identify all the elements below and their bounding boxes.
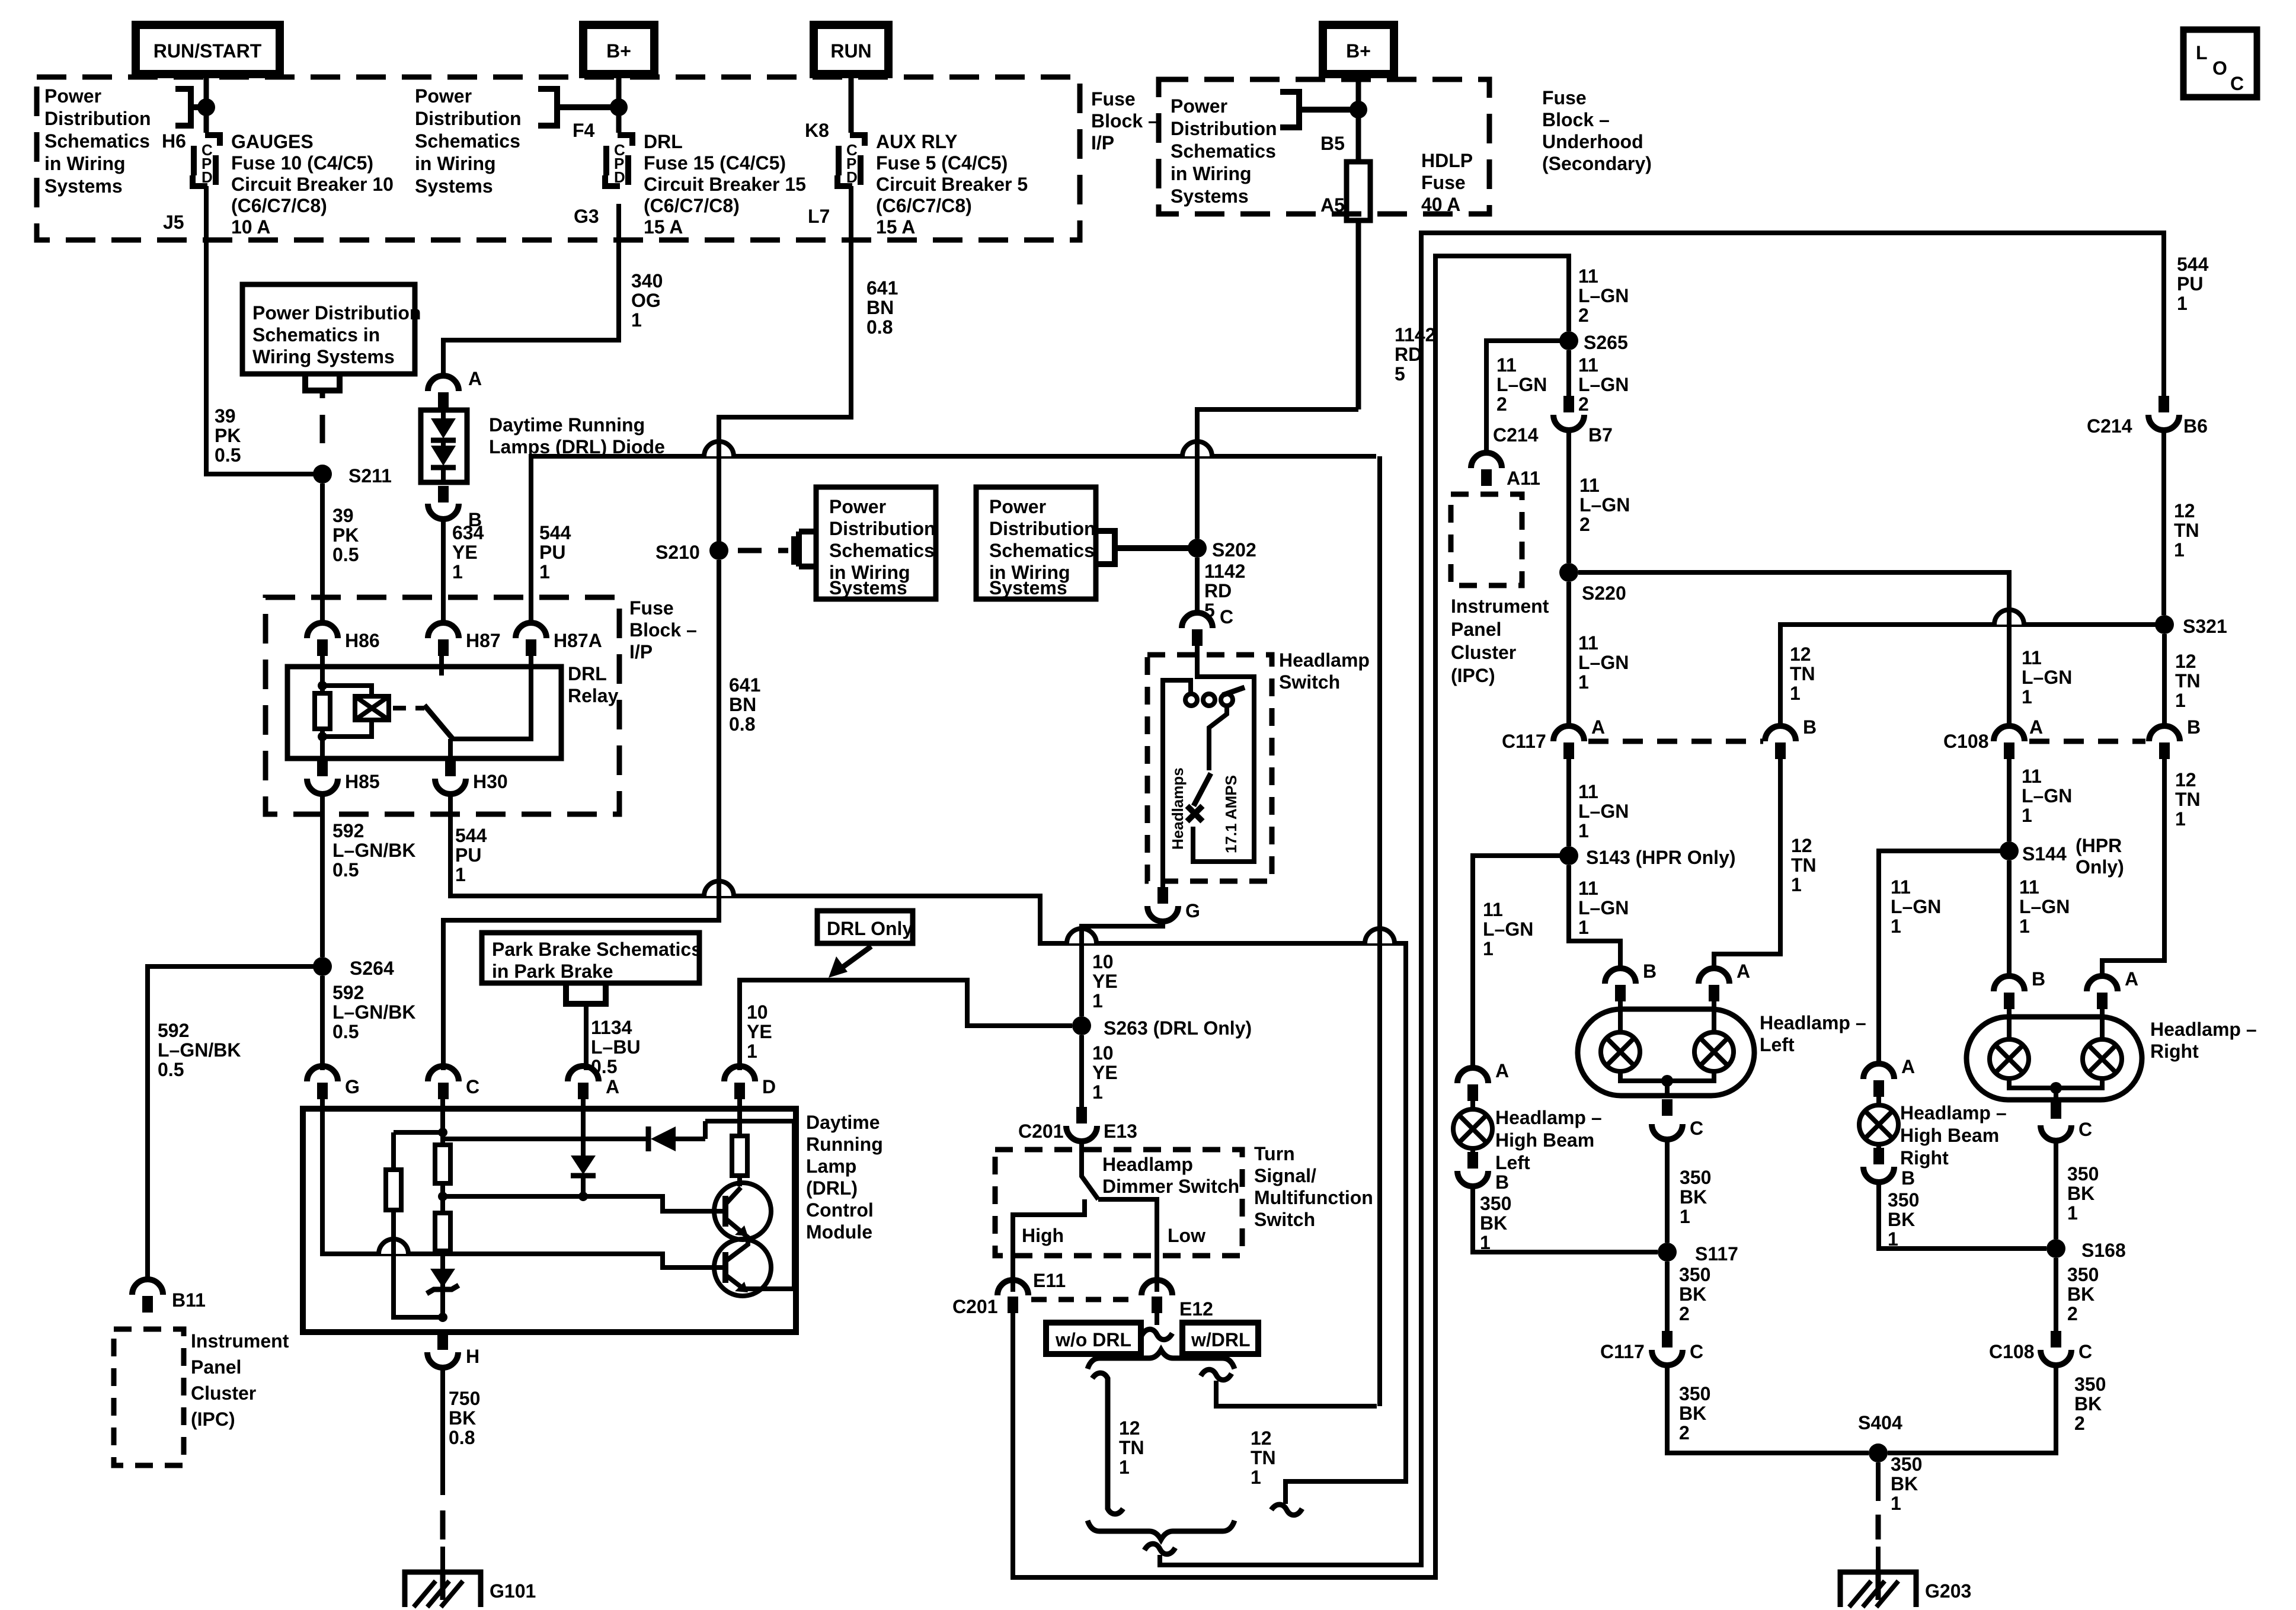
label 592 L-GN/BK 0.5 (B11 wire) (158, 1020, 241, 1080)
svg-text:Power: Power (989, 496, 1046, 517)
connector A (module) (568, 1066, 619, 1099)
svg-text:Systems: Systems (989, 577, 1067, 598)
svg-text:S263 (DRL Only): S263 (DRL Only) (1104, 1017, 1252, 1039)
label Headlamp High Beam Left (1495, 1107, 1602, 1173)
bracket from block 1 to J5 wire (175, 89, 204, 126)
headlamp switch lower blade (1194, 773, 1211, 806)
svg-text:11: 11 (1578, 265, 1598, 287)
tag B+ (gauges) (583, 25, 654, 74)
IPC dashed box (B11) (114, 1329, 184, 1465)
svg-text:1: 1 (1483, 938, 1494, 959)
fuse block I/P label (1091, 88, 1159, 153)
svg-text:DRL: DRL (644, 131, 683, 152)
svg-text:Systems: Systems (1171, 185, 1249, 207)
svg-text:F4: F4 (573, 120, 595, 141)
HDLP fuse element (1347, 162, 1370, 220)
IPC label (A11) (1451, 596, 1549, 686)
headlamp left common (1620, 1071, 1714, 1096)
wire S220 right to S321 column (1578, 572, 2009, 726)
svg-text:Headlamps: Headlamps (1169, 767, 1187, 850)
splice S321 (2155, 615, 2174, 634)
svg-text:Headlamp: Headlamp (1102, 1154, 1193, 1175)
relay switch blade (424, 705, 453, 739)
connector H86 (307, 623, 380, 656)
svg-text:C: C (2078, 1341, 2092, 1362)
headlamp left housing oval (1578, 1009, 1754, 1096)
headlamp switch contact circles (1185, 694, 1233, 706)
svg-text:S211: S211 (348, 465, 392, 486)
module diode D1 (571, 1156, 596, 1176)
dashed connector line C108 A-B (2029, 739, 2145, 744)
svg-text:S265: S265 (1584, 332, 1628, 353)
svg-text:E12: E12 (1179, 1298, 1213, 1320)
svg-text:0.8: 0.8 (729, 713, 755, 735)
wire H30 to right (544 PU) (450, 794, 1406, 1504)
svg-text:in Park Brake: in Park Brake (492, 961, 613, 982)
connector C (headlamp switch) (1182, 606, 1233, 646)
svg-text:1: 1 (1092, 990, 1103, 1012)
svg-text:Headlamp –: Headlamp – (2150, 1019, 2257, 1040)
headlamp switch selector blade (1223, 687, 1245, 695)
svg-text:C: C (2078, 1119, 2092, 1140)
svg-text:11: 11 (1578, 632, 1598, 654)
svg-text:11: 11 (1578, 781, 1598, 802)
svg-text:Instrument: Instrument (191, 1330, 289, 1352)
svg-text:L–GN: L–GN (1578, 374, 1629, 395)
svg-text:B: B (2032, 968, 2045, 990)
svg-text:S220: S220 (1582, 582, 1626, 604)
svg-text:B+: B+ (606, 40, 631, 62)
svg-text:Panel: Panel (191, 1356, 241, 1378)
svg-text:Daytime: Daytime (806, 1112, 880, 1133)
svg-text:S210: S210 (655, 542, 700, 563)
svg-text:15 A: 15 A (876, 216, 915, 238)
544 PU bus down from relay bus (1377, 456, 1382, 1406)
svg-text:C201: C201 (952, 1296, 998, 1317)
park brake schematics text (492, 939, 702, 982)
splice S117 (1658, 1243, 1677, 1262)
svg-text:A: A (1737, 961, 1750, 982)
svg-text:12: 12 (2175, 769, 2196, 790)
wire C117-A down to S143 (1566, 759, 1571, 846)
svg-text:B6: B6 (2183, 415, 2208, 437)
turn signal multifunction switch dashed box (995, 1150, 1242, 1256)
module right rail (792, 1121, 797, 1288)
power distribution text block 3 (underhood) (1171, 95, 1277, 207)
hop module G leg over left branch (379, 1239, 408, 1254)
svg-text:(DRL): (DRL) (806, 1177, 858, 1199)
svg-text:(C6/C7/C8): (C6/C7/C8) (644, 195, 740, 216)
svg-text:(IPC): (IPC) (191, 1409, 235, 1430)
label 1142 RD 5 (fuse wire) (1395, 324, 1435, 385)
IPC dashed box (A11) (1451, 494, 1522, 585)
label Daytime Running Lamps (DRL) Diode (489, 414, 665, 457)
connector C201-E11 (952, 1270, 1066, 1317)
label 11 L-GN 2 (B7 wire) (1578, 354, 1629, 415)
svg-text:AUX RLY: AUX RLY (876, 131, 958, 152)
label 39 PK 0.5 (H86 wire) (332, 505, 359, 565)
connector H30 (435, 760, 508, 794)
connector A (headlamp right) (2087, 968, 2138, 1009)
dashed connector line C117 A-B (1588, 739, 1763, 744)
svg-text:BK: BK (449, 1407, 476, 1429)
connector A (high beam left) (1457, 1060, 1509, 1101)
svg-text:TN: TN (1119, 1437, 1144, 1458)
wire S143 left to high beam left (1473, 856, 1569, 1071)
svg-text:Distribution: Distribution (415, 108, 522, 129)
brace lower (options merge) (1088, 1521, 1235, 1539)
connector H87A (516, 623, 602, 656)
label 12 TN 1 (H30 return) (1251, 1427, 1276, 1488)
module zener diode (427, 1251, 459, 1317)
svg-text:340: 340 (631, 270, 663, 292)
wire HDLP fuse to S202 (1197, 409, 1358, 539)
label Headlamp Switch (1279, 649, 1370, 693)
svg-text:L–GN: L–GN (2019, 896, 2070, 917)
hop S321 line over 11 L-GN col (1994, 610, 2024, 625)
svg-text:Lamp: Lamp (806, 1156, 856, 1177)
module node dots (438, 1128, 447, 1137)
svg-text:RUN: RUN (830, 40, 871, 62)
hop bus770 over 641 BN (704, 441, 734, 456)
svg-text:10: 10 (1092, 1042, 1114, 1064)
label 12 TN 1 (w/o DRL wire) (1119, 1417, 1144, 1478)
svg-text:PU: PU (2177, 273, 2203, 295)
splice S264 (313, 957, 332, 976)
svg-text:Headlamp: Headlamp (1279, 649, 1370, 671)
svg-text:C117: C117 (1502, 731, 1546, 752)
svg-text:Right: Right (1900, 1147, 1949, 1169)
node F4 dot (610, 98, 628, 116)
relay contact H87 stub (439, 656, 444, 676)
hop H30 wire over 641 BN (704, 881, 734, 896)
svg-text:2: 2 (1579, 514, 1590, 535)
svg-text:BK: BK (2067, 1183, 2094, 1204)
module C input leg (394, 1099, 443, 1317)
svg-text:1: 1 (1791, 874, 1802, 895)
svg-text:Distribution: Distribution (829, 518, 936, 539)
svg-text:1: 1 (2067, 1202, 2078, 1224)
power distribution box C (solid) (976, 487, 1096, 599)
label 11 L-GN 2 (S220 wire) (1579, 475, 1630, 535)
headlamp right high bulb (2083, 1009, 2122, 1078)
headlamp left low bulb (1601, 1001, 1640, 1071)
svg-text:Multifunction: Multifunction (1254, 1187, 1373, 1208)
DRL diode assembly (421, 410, 467, 482)
svg-text:TN: TN (2174, 520, 2199, 541)
label 10 YE 1 (E13 wire) (1092, 1042, 1118, 1103)
svg-text:1: 1 (1891, 916, 1901, 937)
label 11 L-GN 2 (above S265) (1578, 265, 1629, 326)
svg-text:Power: Power (44, 85, 101, 107)
svg-text:B11: B11 (172, 1289, 206, 1311)
dashed line between E11 and E12 (1031, 1297, 1138, 1302)
bracket from block 2 to F4 wire (538, 89, 616, 126)
headlamp left high bulb (1694, 1001, 1734, 1071)
svg-text:350: 350 (1888, 1189, 1919, 1211)
svg-text:1: 1 (1119, 1457, 1130, 1478)
headlamp left common dot (1661, 1075, 1673, 1087)
svg-text:11: 11 (1579, 475, 1600, 496)
wire RUN tag to CPD (L7) (849, 74, 854, 133)
fuse/CB symbol CPD (L7) (837, 135, 865, 186)
label 12 TN 1 (below S321) (2175, 651, 2201, 711)
svg-text:OG: OG (631, 290, 661, 311)
svg-text:1134: 1134 (591, 1017, 632, 1038)
headlamp switch X contact (1187, 806, 1203, 821)
svg-text:Daytime Running: Daytime Running (489, 414, 645, 436)
label 39 PK 0.5 (J5 wire) (215, 405, 241, 466)
svg-text:O: O (2212, 57, 2227, 79)
svg-text:Systems: Systems (415, 175, 493, 197)
connector C214-B7 (1493, 396, 1613, 446)
svg-text:L–GN: L–GN (1578, 801, 1629, 822)
svg-text:Only): Only) (2076, 856, 2124, 878)
wire high beam left B to S117 (1473, 1186, 1658, 1252)
svg-text:BK: BK (2074, 1393, 2102, 1414)
svg-text:L–GN/BK: L–GN/BK (158, 1039, 241, 1061)
svg-text:641: 641 (866, 277, 898, 299)
high beam left bulb (1453, 1101, 1492, 1156)
hop H30 wire over 544 PU bus (1365, 929, 1395, 943)
label Headlamp - Left (1760, 1012, 1866, 1055)
svg-text:1: 1 (539, 561, 550, 582)
svg-text:Fuse: Fuse (1421, 172, 1466, 193)
label Headlamp High Beam Right (1900, 1102, 2007, 1169)
svg-text:1: 1 (2019, 916, 2030, 937)
label 634 YE 1 (452, 522, 484, 582)
svg-text:Circuit Breaker 10: Circuit Breaker 10 (231, 174, 394, 195)
wire C108-B down to headlamp right A (2102, 759, 2164, 977)
svg-text:D: D (762, 1076, 776, 1097)
svg-text:High: High (1022, 1225, 1064, 1246)
connector C214-B6 (2087, 396, 2208, 437)
wire S210 down to module C corner (443, 560, 719, 1070)
svg-text:High Beam: High Beam (1900, 1125, 1999, 1146)
svg-text:G101: G101 (490, 1580, 536, 1602)
svg-text:B: B (1901, 1167, 1915, 1189)
svg-text:Circuit Breaker 5: Circuit Breaker 5 (876, 174, 1028, 195)
hop H30 wire over S263 wire (1067, 929, 1096, 943)
label 340 OG 1 (631, 270, 663, 331)
svg-text:HDLP: HDLP (1421, 150, 1473, 171)
wire S265 down to B7 (1566, 350, 1571, 396)
wire S144 down to headlamp right B (2007, 860, 2012, 977)
svg-text:11: 11 (1578, 878, 1598, 899)
svg-text:Fuse: Fuse (1091, 88, 1136, 110)
svg-text:S117: S117 (1695, 1243, 1738, 1265)
svg-text:544: 544 (2177, 254, 2209, 275)
svg-text:Schematics: Schematics (829, 540, 935, 561)
svg-text:TN: TN (1790, 663, 1815, 684)
svg-text:S321: S321 (2183, 616, 2227, 637)
connector C (headlamp left) (1652, 1099, 1703, 1140)
svg-text:L–GN: L–GN (2022, 785, 2072, 806)
svg-text:PU: PU (539, 542, 565, 563)
connector C108-A (1943, 716, 2043, 759)
svg-text:592: 592 (158, 1020, 189, 1041)
svg-text:10: 10 (747, 1001, 768, 1023)
node H6 dot (197, 98, 215, 116)
svg-text:L–GN: L–GN (1578, 897, 1629, 918)
label 1142 RD 5 (S202 wire) (1204, 561, 1245, 621)
module horizontal diode D2 line (443, 1121, 794, 1139)
svg-text:B7: B7 (1588, 424, 1613, 446)
label 544 PU 1 (H30 wire) (455, 825, 487, 885)
label 12 TN 1 (headlamp left A wire) (1791, 835, 1817, 895)
park brake schematics box (482, 933, 699, 983)
svg-text:G3: G3 (574, 206, 599, 227)
wire S143 down to headlamp left B (1569, 865, 1620, 969)
svg-text:11: 11 (2022, 647, 2042, 668)
svg-text:Power: Power (1171, 95, 1227, 117)
svg-text:H6: H6 (162, 130, 186, 152)
label 11 L-GN 1 (headlamp left B wire) (1578, 878, 1629, 938)
svg-text:Right: Right (2150, 1041, 2199, 1062)
wire B6 down to S321 (2161, 430, 2166, 615)
connector G (headlamp switch) (1147, 887, 1200, 921)
label 11 L-GN 2 (A11 branch) (1496, 354, 1547, 415)
svg-text:Fuse 10 (C4/C5): Fuse 10 (C4/C5) (231, 152, 373, 174)
label fuse block I/P (relay) (629, 597, 697, 662)
svg-text:BK: BK (1891, 1473, 1918, 1494)
svg-text:Schematics: Schematics (1171, 140, 1276, 162)
svg-text:350: 350 (2074, 1374, 2106, 1395)
svg-text:TN: TN (2175, 789, 2201, 810)
wire C108-C to S404 (1888, 1365, 2056, 1453)
headlamp switch left rail (1163, 680, 1191, 887)
relay contact H87A leg (453, 656, 531, 739)
tag RUN (814, 25, 888, 74)
module resistor R3 (386, 1170, 401, 1210)
svg-text:DRL: DRL (568, 663, 607, 684)
svg-text:11: 11 (1578, 354, 1598, 376)
splice S404 (1869, 1443, 1888, 1462)
module A input leg with diode (581, 1099, 586, 1196)
wire J5 down and to S211 (206, 186, 314, 474)
wire C108-A down to S144 (2007, 759, 2012, 841)
wire B+ tag to CPD (G3) (616, 74, 622, 133)
power distribution box A (solid) (242, 284, 415, 374)
wire S144 left to high beam right (1879, 851, 2009, 1067)
svg-text:BK: BK (1680, 1186, 1707, 1208)
wire S321 line to C117-B (1780, 625, 2164, 726)
svg-text:1: 1 (452, 561, 463, 582)
svg-text:High Beam: High Beam (1495, 1129, 1594, 1151)
option squiggle (w/DRL branch) (1201, 1369, 1232, 1380)
svg-text:L–GN: L–GN (1578, 285, 1629, 306)
label AUX RLY fuse text (876, 131, 1028, 238)
svg-text:(IPC): (IPC) (1451, 665, 1495, 686)
svg-text:B: B (1495, 1172, 1509, 1193)
svg-text:Dimmer Switch: Dimmer Switch (1102, 1176, 1239, 1197)
svg-text:Switch: Switch (1254, 1209, 1315, 1230)
svg-text:BK: BK (1679, 1283, 1706, 1305)
svg-text:H86: H86 (345, 630, 380, 651)
svg-text:E11: E11 (1033, 1270, 1066, 1291)
tag RUN/START (136, 25, 280, 74)
svg-text:B: B (1803, 716, 1817, 738)
relay coil branch wires (322, 656, 372, 758)
svg-text:1: 1 (2022, 805, 2032, 826)
svg-text:Wiring Systems: Wiring Systems (252, 346, 395, 367)
svg-text:BK: BK (1679, 1403, 1706, 1424)
svg-text:11: 11 (2019, 876, 2039, 898)
w/o DRL 12 TN wire bracket top hook (1092, 1373, 1108, 1387)
wire S264 left to B11 (148, 966, 322, 1279)
label 350 BK 1 (high beam right B) (1888, 1189, 1919, 1250)
svg-text:A: A (2029, 716, 2043, 738)
svg-text:L7: L7 (808, 206, 830, 227)
label 350 BK 2 (S117 wire) (1679, 1264, 1710, 1324)
hook end of H30 return (1271, 1505, 1302, 1515)
svg-text:A: A (1495, 1060, 1509, 1081)
svg-text:PK: PK (332, 524, 359, 546)
svg-text:0.8: 0.8 (449, 1427, 475, 1448)
wire G3 fuse to diode A (443, 204, 619, 376)
power distribution box B text (829, 496, 936, 598)
label GAUGES fuse text (231, 131, 394, 238)
module base line to upper transistor (443, 1196, 725, 1211)
label 1134 L-BU 0.5 (591, 1017, 641, 1077)
svg-text:C108: C108 (1989, 1341, 2035, 1362)
svg-text:10 A: 10 A (231, 216, 270, 238)
label 11 L-GN 1 (high beam left wire) (1483, 899, 1533, 959)
label 12 TN 1 (headlamp right A) (2175, 769, 2201, 830)
svg-text:TN: TN (2175, 670, 2201, 692)
svg-text:1: 1 (455, 864, 466, 885)
wire park brake to module A (584, 1004, 589, 1070)
svg-text:Left: Left (1495, 1152, 1530, 1173)
svg-text:1: 1 (1480, 1232, 1491, 1253)
w/o DRL 12 TN vertical wire (1105, 1384, 1111, 1505)
wire w/DRL branch to 544 PU bus (1216, 1381, 1377, 1406)
bracket below park brake box (566, 984, 606, 1004)
w/o DRL 12 TN wire bracket bottom hook (1108, 1502, 1123, 1514)
svg-text:0.5: 0.5 (158, 1059, 184, 1080)
svg-text:350: 350 (1891, 1454, 1922, 1475)
connector H85 (307, 760, 380, 794)
label 641 BN 0.8 (L7 wire) (866, 277, 898, 338)
label 11 L-GN 1 (3390 col) (2022, 647, 2072, 708)
svg-text:A: A (1901, 1056, 1915, 1077)
IPC label (B11) (191, 1330, 289, 1430)
svg-text:L–GN: L–GN (2022, 667, 2072, 688)
wire B+ tag to HDLP fuse (1356, 74, 1361, 162)
fuse block I/P dashed box (37, 77, 1080, 240)
label Turn Signal/Multifunction Switch (1254, 1143, 1373, 1230)
splice S168 (2046, 1239, 2065, 1258)
svg-text:L–GN/BK: L–GN/BK (332, 840, 415, 861)
label DRL fuse text (644, 131, 806, 238)
splice S211 (313, 465, 332, 484)
bracket from box C to S202 (1096, 531, 1194, 564)
connector C108-C (1989, 1331, 2092, 1365)
svg-text:B5: B5 (1320, 133, 1345, 154)
svg-text:40 A: 40 A (1421, 194, 1460, 215)
bracket below box A (305, 375, 340, 391)
fuse block I/P dashed box (relay) (266, 597, 619, 814)
tag B+ (underhood) (1323, 25, 1394, 74)
svg-text:C: C (1690, 1341, 1703, 1362)
svg-text:1: 1 (1680, 1206, 1690, 1227)
svg-text:Block –: Block – (1091, 110, 1159, 132)
svg-text:A: A (2125, 968, 2138, 990)
svg-text:Underhood: Underhood (1542, 131, 1643, 152)
ground symbol G101 (405, 1572, 481, 1607)
connector C201-E12 (1141, 1280, 1213, 1320)
module G input leg (322, 1099, 725, 1267)
